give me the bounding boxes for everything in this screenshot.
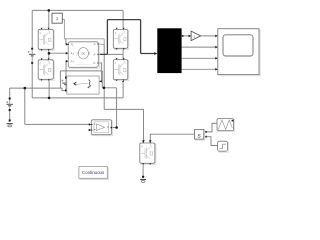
wire left midpoint to A+: [49, 49, 68, 60]
wire dark A- loop to demux: [98, 20, 156, 55]
DC voltage source E (x=32): [28, 48, 36, 64]
MOSFET Q4 (right bottom): [113, 58, 129, 81]
wire constant to TL: [62, 19, 67, 44]
comparator block: [91, 120, 112, 136]
svg-text:F-: F-: [93, 61, 96, 65]
arrow into meas block right: [99, 80, 101, 82]
arrow into scope in2: [215, 46, 218, 49]
DC voltage source (x=10): [6, 98, 13, 112]
node comparator out junction: [115, 126, 118, 129]
arrow into s-block in2: [204, 136, 207, 138]
arrow into scope in3: [215, 57, 218, 60]
wire F- down to meas block: [98, 63, 101, 81]
node top rail junction: [48, 9, 51, 12]
arrow into A+: [66, 52, 69, 55]
DC voltage source (x=66 field): [61, 77, 69, 92]
demux (black): [157, 28, 183, 73]
junction dots: [24, 9, 125, 129]
constant block "1": [52, 13, 62, 23]
wire demux out2: [182, 46, 216, 48]
svg-text:TL: TL: [71, 43, 75, 47]
svg-text:A+: A+: [71, 51, 75, 55]
wire bottom mosfet to ground: [142, 163, 144, 176]
node bottom rail junction: [48, 97, 51, 100]
step source block: [218, 141, 229, 152]
ground (left): [7, 120, 13, 127]
svg-text:_________: _________: [74, 62, 92, 65]
DC machine U_dcm: [68, 42, 99, 69]
wire demux out3: [182, 57, 216, 59]
svg-text:A-: A-: [93, 53, 96, 57]
wire right midpoint rail: [107, 48, 123, 59]
wire battery10 rail to battery66 and comparator: [10, 88, 90, 124]
wire demux out4: [182, 68, 216, 70]
wire top rail: [32, 10, 123, 48]
MOSFET Q3 (right top): [113, 28, 129, 50]
node battery rail junction: [24, 87, 27, 90]
triangle wave source block: [217, 119, 235, 132]
wire m measurement down leg: [104, 44, 143, 141]
arrow into F+: [66, 60, 69, 63]
s block (switch): [195, 129, 205, 140]
arrow into bottom mosfet gate right: [149, 140, 152, 142]
wire step to s-block: [205, 137, 217, 146]
wire m loop around machine (thick gray): [64, 19, 104, 44]
MOSFET Q2 (left bottom): [38, 58, 54, 81]
wire rect route around left of machine: [60, 71, 104, 88]
arrow into scope in1: [215, 35, 218, 38]
node left midpoint junction: [48, 52, 51, 55]
measurement block (mech): [67, 76, 99, 94]
arrowheads: [66, 35, 218, 143]
svg-text:F+: F+: [71, 59, 75, 63]
arrow into demux: [154, 52, 157, 55]
arrow into TL: [66, 43, 69, 46]
arrow into comparator in1: [89, 123, 92, 126]
arrow into s-block in1: [204, 131, 207, 133]
arrow into bottom mosfet gate left: [142, 140, 145, 142]
wire demux out1 to gain to scope: [182, 35, 216, 37]
arrow into comparator in2: [89, 129, 92, 132]
svg-text:dc: dc: [82, 52, 86, 56]
wire F+ from battery66: [66, 61, 68, 77]
node m-line junction: [103, 87, 106, 90]
ground (bottom mosfet): [140, 176, 146, 183]
gain triangle: [191, 31, 201, 40]
wire comparator output up to m-line: [104, 88, 117, 128]
MOSFET Q5 (bottom): [140, 141, 156, 165]
scope block: [218, 29, 260, 76]
wire bottom rail: [32, 63, 123, 98]
powergui Continuous: [79, 167, 109, 180]
MOSFET Q1 (left top): [38, 28, 54, 51]
wire triangle-wave to s-block: [205, 123, 217, 131]
node right bottom port junction: [122, 80, 124, 82]
svg-text:Continuous: Continuous: [82, 170, 105, 175]
wire comparator input2 stub: [88, 129, 89, 131]
wire s-block out to bottom mosfet: [150, 134, 194, 141]
arrow into gain: [189, 35, 192, 38]
arrow into scope in4: [215, 68, 218, 71]
